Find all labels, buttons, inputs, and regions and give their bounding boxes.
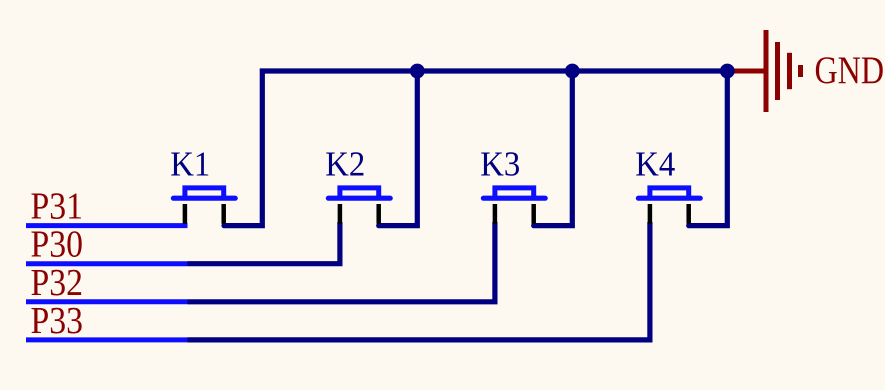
K2 pin 2 [376, 204, 381, 224]
wire: GND lead [727, 69, 766, 74]
svg-text:P33: P33 [31, 300, 84, 342]
svg-text:K3: K3 [480, 145, 520, 184]
K2 actuator cap [340, 188, 379, 200]
junction at GND / top bus [720, 64, 735, 79]
push button K1 [170, 145, 235, 224]
K3 actuator cap [495, 188, 534, 200]
svg-text:P32: P32 [31, 262, 84, 304]
wire: K2 right pin stub and riser to top bus [379, 71, 418, 226]
K3 contact bar [483, 196, 545, 201]
K2 contact bar [328, 196, 390, 201]
svg-text:P30: P30 [31, 224, 84, 266]
junction at K3 riser / top bus [565, 64, 580, 79]
ground symbol bar 4 [798, 65, 803, 77]
wire: net P31 [26, 223, 188, 228]
K2 pin 1 [338, 204, 343, 224]
svg-text:K4: K4 [635, 145, 675, 184]
junction at K2 riser / top bus [410, 64, 425, 79]
wire: net P33 (labeled segment) [26, 337, 188, 342]
push button K2 [325, 145, 390, 224]
wire: K4 right pin stub and riser to top bus [689, 71, 728, 226]
K4 contact bar [638, 196, 700, 201]
push button K3 [480, 145, 545, 224]
K4 actuator cap [650, 188, 689, 200]
wire: P33 to K4 left pin [188, 222, 650, 340]
K1 pin 1 [183, 204, 188, 224]
push button K4 [635, 145, 700, 224]
K1 pin 2 [221, 204, 226, 224]
svg-text:GND: GND [815, 49, 885, 92]
wire: P30 to K1 left pin [188, 222, 340, 264]
ground symbol bar 1 [764, 30, 769, 112]
wire: net P30 (labeled segment) [26, 261, 188, 266]
K3 pin 2 [531, 204, 536, 224]
ground symbol bar 3 [787, 53, 792, 89]
ground symbol bar 2 [775, 42, 780, 100]
K1 actuator cap [185, 188, 224, 200]
wire: top bus from K1 riser to GND node [224, 71, 727, 226]
K4 pin 2 [686, 204, 691, 224]
svg-text:P31: P31 [31, 186, 84, 228]
K4 pin 1 [648, 204, 653, 224]
wire: net P32 (labeled segment) [26, 299, 188, 304]
svg-text:K2: K2 [325, 145, 365, 184]
svg-text:K1: K1 [170, 145, 210, 184]
wire: K3 right pin stub and riser to top bus [534, 71, 573, 226]
K1 contact bar [173, 196, 235, 201]
K3 pin 1 [493, 204, 498, 224]
wire: P32 to K3 left pin [188, 222, 495, 302]
